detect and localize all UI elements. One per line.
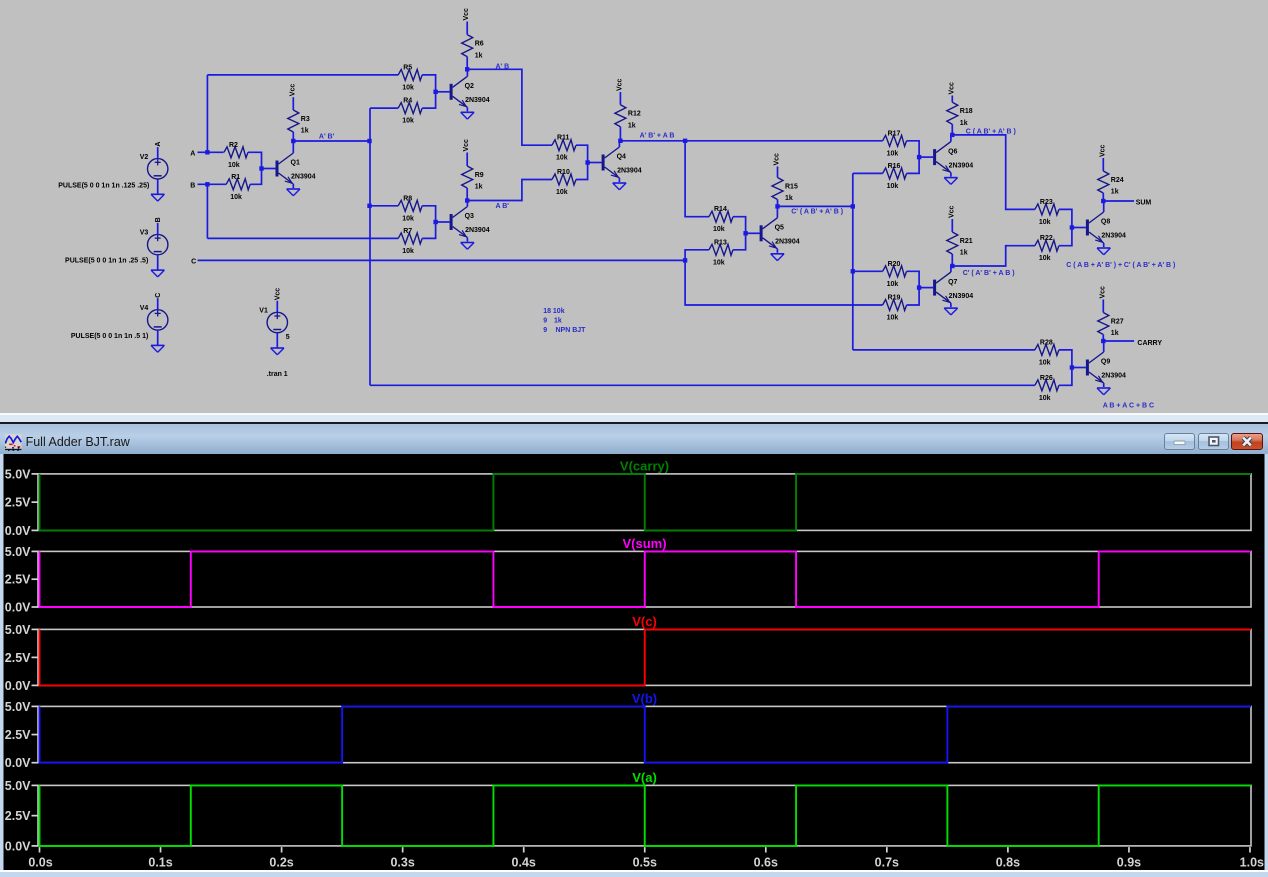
svg-text:R10: R10 — [557, 169, 570, 176]
svg-text:2.5V: 2.5V — [5, 495, 31, 509]
wire R17 to Q6 base — [907, 141, 920, 157]
svg-text:V4: V4 — [140, 305, 149, 312]
svg-text:0.9s: 0.9s — [1117, 855, 1141, 869]
Vcc label above R6 — [463, 8, 470, 21]
svg-text:C: C — [191, 258, 196, 265]
svg-text:A: A — [155, 142, 162, 147]
pane V(c) — [5, 614, 1251, 693]
wire R6 to Q2 collector — [466, 57, 468, 70]
svg-text:1k: 1k — [554, 318, 562, 325]
svg-text:Vcc: Vcc — [774, 153, 781, 166]
wire R7 to Q3 base — [422, 222, 435, 238]
svg-text:Q7: Q7 — [948, 279, 957, 286]
svg-text:1k: 1k — [960, 120, 968, 127]
Vcc label above R15 — [774, 153, 781, 166]
ground at Q4 emitter — [613, 183, 626, 190]
svg-text:R22: R22 — [1040, 235, 1053, 242]
svg-text:10k: 10k — [556, 189, 568, 196]
svg-text:0.8s: 0.8s — [996, 855, 1020, 869]
wire R22 to Q8 base — [1059, 228, 1072, 246]
node Q2 collector — [465, 67, 469, 71]
svg-text:0.1s: 0.1s — [148, 855, 172, 869]
wire A'B' to R26 — [370, 384, 1035, 386]
wire R26 to Q9 base — [1059, 368, 1072, 386]
svg-text:1k: 1k — [475, 184, 483, 191]
svg-text:10k: 10k — [402, 118, 414, 125]
svg-text:V2: V2 — [140, 154, 149, 161]
svg-text:R19: R19 — [888, 295, 901, 302]
ground below V1 — [271, 348, 284, 355]
wire R12 to Q4 collector — [619, 127, 621, 141]
wire C net — [198, 259, 686, 261]
trace V(b) — [40, 706, 1252, 762]
svg-text:2N3904: 2N3904 — [465, 227, 490, 234]
svg-text:R4: R4 — [403, 98, 412, 105]
svg-text:C: C — [155, 293, 162, 298]
wire branch to R8 — [370, 205, 398, 207]
svg-text:0.0V: 0.0V — [5, 600, 31, 614]
svg-text:R3: R3 — [301, 116, 310, 123]
transistor Q5 2N3904 — [746, 206, 800, 252]
svg-text:.tran 1: .tran 1 — [267, 371, 288, 378]
svg-text:0.0V: 0.0V — [5, 523, 31, 537]
junction Q2 base — [433, 90, 437, 94]
wire R18 to Q6 collector — [951, 124, 953, 135]
resistor R7 — [398, 228, 422, 255]
junction Q5 base — [743, 231, 747, 235]
resistor R27 — [1098, 313, 1124, 338]
svg-text:Vcc: Vcc — [1099, 286, 1106, 299]
svg-text:R9: R9 — [475, 172, 484, 179]
node Q7 collector — [950, 264, 954, 268]
pane V(sum) — [5, 536, 1251, 614]
junction A'B' to R8 — [367, 204, 371, 208]
junction Q6 base — [917, 155, 921, 159]
wire Q2 out — [467, 69, 552, 145]
transistor Q1 2N3904 — [262, 141, 316, 188]
wire R21 to Q7 collector — [951, 254, 953, 266]
svg-text:5.0V: 5.0V — [5, 544, 31, 558]
wire Vcc to R27 — [1102, 300, 1104, 313]
svg-text:2N3904: 2N3904 — [949, 293, 974, 300]
close button — [1231, 433, 1263, 450]
wire C to R19 — [685, 260, 883, 305]
svg-text:R1: R1 — [231, 174, 240, 181]
svg-text:10k: 10k — [402, 248, 414, 255]
svg-text:1k: 1k — [628, 122, 636, 129]
resistor R5 — [398, 64, 422, 91]
svg-text:0.5s: 0.5s — [633, 855, 657, 869]
svg-text:R12: R12 — [628, 111, 641, 118]
svg-text:R2: R2 — [229, 142, 238, 149]
resistor R11 — [552, 135, 576, 162]
svg-text:Q3: Q3 — [465, 213, 474, 220]
svg-text:2.5V: 2.5V — [5, 728, 31, 742]
svg-text:V(c): V(c) — [632, 614, 657, 629]
svg-text:0.7s: 0.7s — [875, 855, 899, 869]
svg-text:R26: R26 — [1040, 375, 1053, 382]
svg-text:V(b): V(b) — [632, 691, 657, 706]
svg-text:0.6s: 0.6s — [754, 855, 778, 869]
pane V(carry) — [5, 458, 1251, 537]
svg-text:2N3904: 2N3904 — [291, 174, 316, 181]
voltage source V4 — [140, 298, 168, 345]
wire R11 to Q4 base — [576, 145, 588, 162]
svg-text:PULSE(5 0 0 1n 1n .25 .5): PULSE(5 0 0 1n 1n .25 .5) — [65, 258, 148, 265]
svg-text:2N3904: 2N3904 — [465, 97, 490, 104]
wire to R16 — [853, 172, 883, 174]
svg-text:1k: 1k — [1111, 189, 1119, 196]
wire R2 to Q1 base — [248, 152, 262, 168]
ground at Q7 emitter — [944, 308, 957, 315]
svg-text:2N3904: 2N3904 — [775, 239, 800, 246]
junction Q1 base — [259, 166, 263, 170]
svg-text:V1: V1 — [259, 308, 268, 315]
resistor R19 — [883, 295, 907, 322]
svg-text:10k: 10k — [887, 183, 899, 190]
node Q5 collector — [775, 204, 779, 208]
node Q9 collector — [1101, 339, 1105, 343]
resistor R21 — [947, 232, 973, 257]
svg-text:1k: 1k — [301, 128, 309, 135]
svg-text:10k: 10k — [230, 194, 242, 201]
transistor Q2 2N3904 — [436, 69, 490, 111]
wire branch down to R14 — [685, 141, 709, 217]
resistor R2 — [224, 142, 248, 169]
svg-text:2N3904: 2N3904 — [1101, 233, 1126, 240]
svg-text:Vcc: Vcc — [616, 78, 623, 91]
svg-text:Q4: Q4 — [617, 154, 626, 161]
resistor R14 — [709, 206, 733, 233]
svg-text:2N3904: 2N3904 — [617, 168, 642, 175]
wire R14 to Q5 base — [733, 217, 746, 234]
svg-text:Vcc: Vcc — [275, 288, 282, 301]
svg-text:A B + A C + B C: A B + A C + B C — [1103, 403, 1154, 410]
wire Vcc to R21 — [951, 219, 953, 232]
resistor R3 — [288, 110, 310, 135]
transistor Q4 2N3904 — [588, 141, 642, 182]
wire Q6 out — [952, 135, 1035, 210]
svg-text:5.0V: 5.0V — [5, 622, 31, 636]
svg-text:B: B — [190, 182, 195, 189]
node A label — [155, 142, 162, 147]
wire A label to R2 — [198, 151, 224, 153]
svg-text:R8: R8 — [403, 195, 412, 202]
svg-text:R7: R7 — [403, 228, 412, 235]
voltage source V2 — [140, 147, 168, 194]
svg-text:0.0V: 0.0V — [5, 678, 31, 692]
junction Q8 base — [1070, 225, 1074, 229]
svg-text:NPN BJT: NPN BJT — [556, 327, 587, 334]
junction Q4 base — [585, 160, 589, 164]
wire Vcc to R24 — [1102, 158, 1104, 171]
svg-text:10k: 10k — [1039, 395, 1051, 402]
svg-text:Q1: Q1 — [291, 160, 300, 167]
junction Q5 out — [851, 204, 855, 208]
transistor Q9 2N3904 — [1072, 341, 1126, 387]
svg-text:2N3904: 2N3904 — [1101, 373, 1126, 380]
svg-text:R27: R27 — [1111, 319, 1124, 326]
svg-text:A B': A B' — [496, 203, 510, 210]
svg-text:10k: 10k — [713, 226, 725, 233]
restore button — [1198, 433, 1229, 450]
svg-text:5.0V: 5.0V — [5, 467, 31, 481]
Vcc label above R3 — [289, 84, 296, 97]
svg-text:2.5V: 2.5V — [5, 572, 31, 586]
svg-text:R15: R15 — [785, 184, 798, 191]
svg-text:B: B — [155, 217, 162, 222]
ground at Q9 emitter — [1097, 388, 1110, 395]
svg-text:9: 9 — [543, 318, 547, 325]
Vcc label above R24 — [1099, 144, 1106, 157]
svg-text:5.0V: 5.0V — [5, 778, 31, 792]
node Q1 collector — [291, 139, 295, 143]
junction to R20 — [851, 269, 855, 273]
svg-text:Q9: Q9 — [1101, 359, 1110, 366]
svg-text:C' ( A' B' + A B ): C' ( A' B' + A B ) — [963, 270, 1015, 277]
resistor R20 — [883, 261, 907, 288]
svg-text:Q6: Q6 — [948, 148, 957, 155]
schematic area — [0, 0, 1268, 424]
svg-text:10k: 10k — [713, 259, 725, 266]
svg-text:0.0V: 0.0V — [5, 839, 31, 853]
node Q3 collector — [465, 198, 469, 202]
resistor R1 — [226, 174, 250, 201]
svg-text:2.5V: 2.5V — [5, 809, 31, 823]
wire SUM out — [1103, 200, 1134, 202]
ground at Q3 emitter — [461, 243, 474, 250]
wire Q5 out — [778, 205, 853, 207]
junction B — [205, 182, 209, 186]
svg-text:10k: 10k — [887, 150, 899, 157]
window icon — [5, 434, 22, 451]
wire Vcc to R12 — [619, 92, 621, 105]
resistor R15 — [772, 178, 798, 203]
resistor R18 — [947, 102, 973, 127]
svg-text:0.2s: 0.2s — [269, 855, 293, 869]
pane V(b) — [5, 691, 1251, 770]
wire R16 to Q6 base — [907, 157, 920, 173]
resistor R6 — [462, 35, 484, 60]
svg-text:10k: 10k — [402, 215, 414, 222]
svg-text:Vcc: Vcc — [463, 8, 470, 21]
resistor R13 — [709, 239, 733, 266]
svg-text:A' B' + A B: A' B' + A B — [640, 133, 675, 140]
junction Q9 base — [1070, 365, 1074, 369]
ground at Q8 emitter — [1097, 248, 1110, 255]
wire R9 to Q3 collector — [466, 188, 468, 201]
resistor R23 — [1035, 199, 1059, 226]
wire B label to R1 — [198, 183, 227, 185]
trace V(sum) — [40, 551, 1252, 607]
node B label — [155, 217, 162, 222]
junction Q3 base — [433, 220, 437, 224]
svg-text:0.4s: 0.4s — [512, 855, 536, 869]
svg-text:9: 9 — [543, 327, 547, 334]
svg-text:10k: 10k — [1039, 219, 1051, 226]
trace V(a) — [40, 785, 1252, 846]
wire to R20 — [853, 270, 883, 272]
transistor Q6 2N3904 — [919, 135, 973, 177]
svg-text:Vcc: Vcc — [289, 84, 296, 97]
svg-text:10k: 10k — [228, 162, 240, 169]
svg-text:R23: R23 — [1040, 199, 1053, 206]
svg-text:0.0V: 0.0V — [5, 756, 31, 770]
svg-text:Vcc: Vcc — [463, 139, 470, 152]
wire A up branch — [206, 75, 208, 152]
svg-text:R6: R6 — [475, 41, 484, 48]
wire R10 to Q4 base — [576, 163, 588, 180]
ground below V3 — [151, 270, 164, 277]
svg-text:10k: 10k — [1039, 359, 1051, 366]
svg-text:10k: 10k — [887, 281, 899, 288]
svg-text:2.5V: 2.5V — [5, 650, 31, 664]
node C label — [155, 293, 162, 298]
ground at Q1 emitter — [287, 189, 300, 196]
minimize button — [1164, 433, 1195, 450]
svg-text:1.0s: 1.0s — [1240, 855, 1264, 869]
svg-text:C' ( A B' + A' B ): C' ( A B' + A' B ) — [791, 208, 843, 215]
resistor R28 — [1035, 339, 1059, 366]
svg-text:PULSE(5 0 0 1n 1n .125 .25): PULSE(5 0 0 1n 1n .125 .25) — [58, 183, 149, 190]
wire R8 to Q3 base — [422, 206, 435, 222]
resistor R10 — [552, 169, 576, 196]
svg-text:5.0V: 5.0V — [5, 699, 31, 713]
svg-text:1k: 1k — [1111, 330, 1119, 337]
wire B down branch — [206, 184, 208, 238]
wire R1 to Q1 base — [250, 169, 261, 185]
wire R28 to Q9 base — [1059, 350, 1072, 368]
node Q4 collector — [618, 139, 622, 143]
wire branch to R4 — [370, 107, 398, 109]
wire to R28 — [853, 349, 1035, 351]
svg-text:2N3904: 2N3904 — [949, 162, 974, 169]
wire R3 to Q1 collector — [292, 132, 294, 141]
wire Q7 out — [952, 246, 1035, 266]
Vcc label above R18 — [948, 82, 955, 95]
ground below V4 — [151, 345, 164, 352]
wire R23 to Q8 base — [1059, 209, 1072, 227]
wire R13 to Q5 base — [733, 233, 746, 250]
svg-text:V3: V3 — [140, 230, 149, 237]
svg-text:1k: 1k — [785, 195, 793, 202]
Vcc label above R9 — [463, 139, 470, 152]
svg-text:Q8: Q8 — [1101, 219, 1110, 226]
wire Q5 out vertical — [852, 173, 854, 350]
resistor R8 — [398, 195, 422, 222]
svg-text:R24: R24 — [1111, 177, 1124, 184]
pane V(a) — [5, 770, 1251, 853]
svg-text:Q2: Q2 — [465, 83, 474, 90]
junction Q7 base — [917, 285, 921, 289]
wire Vcc to R6 — [466, 22, 468, 35]
svg-text:V(a): V(a) — [632, 770, 657, 785]
svg-text:10k: 10k — [887, 315, 899, 322]
svg-text:R18: R18 — [960, 108, 973, 115]
svg-text:C ( A B + A' B' ) + C' ( A B': C ( A B + A' B' ) + C' ( A B' + A' B ) — [1066, 262, 1175, 269]
waveform window title bar — [0, 424, 1268, 453]
trace V(c) — [40, 629, 1252, 685]
svg-text:PULSE(5 0 0 1n 1n .5 1): PULSE(5 0 0 1n 1n .5 1) — [71, 333, 148, 340]
svg-text:Vcc: Vcc — [948, 82, 955, 95]
waveform plot area — [0, 454, 1268, 877]
wire R24 to Q8 collector — [1102, 193, 1104, 201]
svg-text:SUM: SUM — [1136, 199, 1152, 206]
wire A to R5 — [207, 74, 398, 76]
Vcc label above R12 — [616, 78, 623, 91]
wire A'B' vertical — [369, 108, 371, 385]
wire R27 to Q9 collector — [1102, 335, 1104, 342]
svg-text:A' B': A' B' — [319, 133, 335, 140]
svg-text:R21: R21 — [960, 238, 973, 245]
time axis ticks and labels — [28, 847, 1264, 869]
svg-text:10k: 10k — [402, 84, 414, 91]
svg-text:Q5: Q5 — [775, 225, 784, 232]
resistor R26 — [1035, 375, 1059, 402]
Vcc label above R21 — [948, 205, 955, 218]
svg-text:1k: 1k — [960, 250, 968, 257]
svg-text:0.3s: 0.3s — [390, 855, 414, 869]
voltage source V1 — [259, 301, 287, 348]
wire Vcc to R18 — [951, 96, 953, 103]
svg-text:0.0s: 0.0s — [28, 855, 52, 869]
wire R5 to Q2 base — [422, 75, 435, 92]
voltage source V3 — [140, 223, 168, 270]
junction Q1 out at vertical — [367, 139, 371, 143]
node Q8 collector — [1101, 199, 1105, 203]
wire R4 to Q2 base — [422, 92, 435, 108]
ground below V2 — [151, 194, 164, 201]
wire Vcc to R9 — [466, 153, 468, 167]
wire C to R13 — [685, 250, 709, 261]
svg-text:R16: R16 — [888, 163, 901, 170]
ground at Q2 emitter — [461, 112, 474, 119]
resistor R17 — [883, 130, 907, 157]
resistor R12 — [615, 105, 641, 130]
svg-text:Vcc: Vcc — [948, 205, 955, 218]
wire Q1 out — [293, 140, 369, 142]
svg-text:R17: R17 — [888, 130, 901, 137]
wire R15 to Q5 collector — [777, 200, 779, 207]
node Q6 collector — [950, 133, 954, 137]
resistor R22 — [1035, 235, 1059, 262]
svg-text:R28: R28 — [1040, 339, 1053, 346]
svg-text:5: 5 — [286, 334, 290, 341]
wire Vcc to R15 — [777, 167, 779, 178]
transistor Q3 2N3904 — [436, 201, 490, 242]
svg-text:R13: R13 — [714, 239, 727, 246]
svg-text:R11: R11 — [557, 135, 570, 142]
svg-text:A: A — [190, 150, 195, 157]
resistor R4 — [398, 98, 422, 125]
svg-text:Vcc: Vcc — [1099, 144, 1106, 157]
Vcc label above R27 — [1099, 286, 1106, 299]
svg-text:18 10k: 18 10k — [543, 308, 565, 315]
resistor R9 — [462, 166, 484, 191]
wire Q4 out to R17 — [620, 140, 882, 142]
transistor Q7 2N3904 — [919, 266, 973, 307]
svg-text:R20: R20 — [888, 261, 901, 268]
wire B to R7 — [207, 237, 398, 239]
wire R19 to Q7 base — [907, 288, 920, 305]
junction Q4 out branch — [683, 139, 687, 143]
junction A — [205, 150, 209, 154]
svg-text:1k: 1k — [475, 52, 483, 59]
resistor R16 — [883, 163, 907, 190]
svg-text:CARRY: CARRY — [1137, 340, 1162, 347]
node Vcc label — [275, 288, 282, 301]
svg-text:10k: 10k — [1039, 255, 1051, 262]
